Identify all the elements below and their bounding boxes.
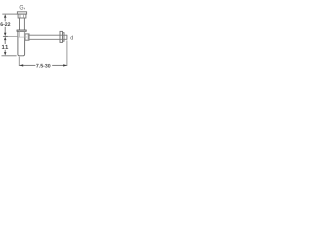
inlet pipe wall left: [19, 18, 21, 30]
dimension 6-22 line upper: [4, 18, 6, 22]
outlet junction nut: [25, 34, 29, 40]
dimension 6-22 arrow up: [4, 14, 6, 17]
middle reference tick: [3, 35, 18, 37]
dimension 6-22 arrow down: [4, 33, 6, 36]
outlet pipe wall bottom: [29, 38, 67, 40]
inlet nut: [18, 14, 26, 18]
inlet nut facet line right: [23, 15, 25, 18]
bottom dimension line left segment: [20, 64, 36, 66]
inlet pipe wall right: [23, 18, 25, 30]
dimension 11 arrow down: [4, 52, 6, 55]
outlet junction nut inner facet: [27, 34, 29, 39]
bottom dimension line right segment: [52, 64, 66, 66]
outlet pipe wall top: [29, 34, 67, 36]
dimension 6-22 line lower: [4, 27, 6, 34]
bottom dimension arrow left: [20, 64, 24, 66]
svg-text:d: d: [70, 34, 73, 41]
dip tube bottom edge: [18, 36, 24, 38]
bottom dimension arrow right: [63, 64, 67, 66]
svg-text:G: G: [19, 5, 23, 12]
inlet nut facet line left: [19, 15, 21, 18]
outlet pipe end cap: [66, 35, 68, 40]
left extension line below cup: [18, 57, 20, 66]
dimension 11 line lower: [4, 50, 6, 53]
inlet flange: [17, 12, 26, 14]
cup body: [18, 31, 25, 56]
dip tube wall right inside cup: [23, 31, 25, 37]
cup top ring: [17, 30, 26, 31]
outlet union nut small ring: [63, 33, 65, 42]
outlet junction centre mark: [25, 36, 27, 38]
outlet union nut tall ring: [60, 31, 63, 42]
middle reference tick dark part: [3, 35, 7, 37]
top reference line (basin level): [2, 13, 17, 15]
dimension 11 arrow up: [4, 37, 6, 40]
right extension line below outlet end: [66, 40, 68, 66]
svg-text:7.5-30: 7.5-30: [36, 64, 51, 70]
dimension 11 line upper: [4, 40, 6, 44]
small mark after G: [23, 8, 26, 10]
bottom reference line (cup bottom level): [2, 55, 17, 57]
dip tube wall left inside cup: [19, 31, 21, 37]
